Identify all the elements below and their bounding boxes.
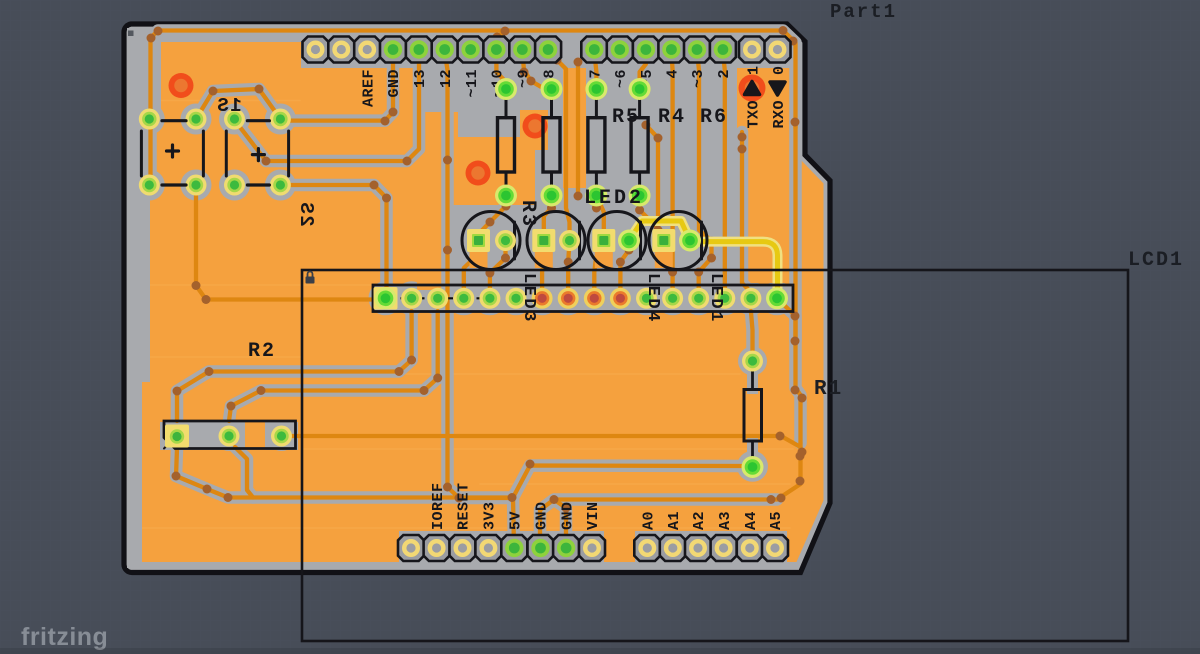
trace pin10 to top edge [496, 31, 505, 49]
svg-text:AREF: AREF [360, 69, 377, 107]
svg-text:A1: A1 [666, 511, 683, 530]
svg-text:4: 4 [665, 69, 682, 79]
trace R5 to LED2 sq [544, 196, 552, 241]
trace R2.1 upper loop to LCD pad2 [177, 311, 412, 421]
trace LCD p16 to edge [777, 298, 796, 341]
trace LED1 sq to LCD p4 [464, 247, 479, 298]
svg-text:LCD1: LCD1 [1128, 249, 1184, 272]
svg-text:2: 2 [716, 69, 733, 79]
trace S1 top pair [196, 89, 280, 119]
svg-text:TXO: TXO [745, 100, 762, 129]
svg-text:LED2: LED2 [584, 187, 644, 210]
svg-text:A4: A4 [743, 511, 760, 530]
svg-text:S: S [217, 95, 228, 117]
trace R6 diag feed [646, 125, 658, 230]
svg-text:RESET: RESET [456, 482, 473, 530]
svg-text:~3: ~3 [690, 69, 707, 88]
trace GND run [540, 500, 777, 549]
svg-text:GND: GND [534, 501, 551, 530]
svg-text:LED1: LED1 [706, 273, 725, 324]
LED 4 footprint [649, 212, 707, 270]
svg-text:R1: R1 [814, 378, 843, 401]
trace edge top [151, 31, 796, 187]
trace R2.1 lower loop to 5V [176, 449, 512, 498]
R2 pad halos [162, 422, 192, 452]
svg-text:1: 1 [230, 95, 241, 117]
bottom vignette [0, 648, 1200, 654]
svg-text:8: 8 [541, 69, 558, 79]
trace R2.2 loop to LCD pad3 [229, 311, 438, 421]
yellow wire LED4 to LCD pad16 [690, 242, 778, 298]
trace 5V to R1 [513, 466, 753, 549]
trace S2 pad1 to pin13 [235, 52, 420, 161]
label S2 (mirrored, vertical) [295, 202, 317, 226]
svg-text:~11: ~11 [464, 69, 481, 98]
LED 3 footprint [588, 212, 646, 270]
LED square pad copper stubs [470, 232, 488, 268]
resistor pad halos [493, 76, 520, 103]
R2 pads [165, 425, 189, 448]
via dots [147, 34, 156, 43]
trace LCD p15 to R1 [751, 311, 753, 361]
trace LED3 round to LCD p10 [620, 241, 629, 299]
svg-text:RXO: RXO [771, 100, 788, 129]
trace GND2 stub [554, 500, 566, 549]
svg-text:R6: R6 [700, 106, 728, 129]
svg-text:R4: R4 [658, 106, 686, 129]
resistor R1 [751, 361, 754, 390]
trace island column 2 [576, 62, 580, 196]
trace S1.p4 to LCD pad1 [196, 191, 378, 300]
copper keepout regions (silver) [127, 28, 142, 568]
bottom header right (A0-A5) [634, 535, 660, 561]
svg-text:3V3: 3V3 [482, 501, 499, 530]
svg-text:12: 12 [438, 69, 455, 88]
svg-text:A0: A0 [641, 511, 658, 530]
trace pin3 to LCD p13 [697, 52, 712, 298]
svg-text:~9: ~9 [516, 69, 533, 88]
svg-text:fritzing: fritzing [21, 623, 108, 651]
svg-text:S: S [295, 202, 317, 213]
trace LED1 round to LCD p5 [490, 241, 506, 298]
orange islands [417, 112, 443, 290]
trace R6 to LED4 sq [640, 196, 664, 241]
trace pin4 to LCD p12 [671, 52, 672, 298]
svg-text:LED4: LED4 [643, 273, 662, 324]
trace pin8 island column [548, 52, 569, 241]
via V3 (between resistors) [523, 114, 548, 139]
resistor R2 outline [164, 421, 296, 449]
bottom header left (power) [398, 535, 424, 561]
trace pin12 down [445, 52, 510, 498]
yellow wire LED3-LED4 [629, 221, 690, 241]
trace R4 to LED3 sq [596, 196, 603, 241]
resistor R3 body [505, 89, 508, 118]
pushbutton S1 S2 pads and silk [139, 109, 160, 130]
R1 pad halos [738, 347, 767, 376]
trace right edge vertical [796, 122, 801, 443]
board outline (Arduino shield shape, silver rim + black edge) [124, 24, 830, 573]
trace R2.3 to right edge [282, 436, 801, 447]
resistor R5 body [550, 89, 553, 118]
trace right edge down segment [777, 443, 801, 500]
trace R3 to LED1 sq [479, 196, 507, 241]
svg-text:7: 7 [588, 69, 605, 79]
svg-text:A5: A5 [768, 511, 785, 530]
trace R2.2 stub right [235, 447, 253, 498]
svg-text:1: 1 [745, 66, 762, 76]
copper fill seams [302, 373, 740, 375]
trace pin2 to LCD p14 [723, 52, 725, 298]
via V1 (top-left) [169, 73, 194, 98]
LCD header silk rect [373, 285, 793, 312]
label TX0 1 with arrow [739, 75, 766, 102]
svg-text:0: 0 [771, 66, 788, 76]
top header right (7-0) [581, 37, 607, 63]
LCD header pad halos [369, 281, 403, 315]
top header left (SCL,SDA,AREF,GND,13-8) [303, 37, 329, 63]
trace S2 pad4 to LCD pad1 [280, 185, 386, 298]
svg-text:2: 2 [295, 215, 317, 226]
svg-text:GND: GND [386, 69, 403, 98]
trace pin7 to R4 top [594, 52, 596, 89]
trace S2 top to GND pin [280, 52, 393, 121]
trace pin5 to R6 top [640, 52, 646, 89]
svg-text:A2: A2 [691, 511, 708, 530]
resistor R6 body [638, 89, 641, 118]
svg-text:R2: R2 [248, 340, 276, 363]
board copper area (orange) [131, 31, 824, 563]
resistor R4 body [595, 89, 598, 118]
svg-text:R3: R3 [516, 200, 539, 228]
LED 1 footprint [462, 212, 520, 270]
svg-text:Part1: Part1 [830, 1, 897, 23]
trace pin9 to R5 top [522, 52, 551, 89]
LCD1 lock icon [306, 277, 315, 284]
svg-text:IOREF: IOREF [430, 482, 447, 530]
svg-text:~6: ~6 [613, 69, 630, 88]
svg-text:R5: R5 [612, 106, 640, 129]
LCD header pads [374, 287, 398, 310]
trace LED2 sq down [542, 247, 544, 298]
svg-text:LED3: LED3 [519, 273, 538, 324]
fiducial square top-left [128, 31, 134, 37]
pushbutton pad halos [134, 104, 165, 135]
svg-text:VIN: VIN [585, 501, 602, 530]
LED 2 footprint [527, 212, 585, 270]
svg-text:GND: GND [559, 501, 576, 530]
svg-text:A3: A3 [717, 511, 734, 530]
via V2 (mid-left) [466, 161, 491, 186]
svg-text:13: 13 [412, 69, 429, 88]
svg-text:5V: 5V [508, 511, 525, 530]
ratsnest dashed line [391, 297, 489, 299]
trace LED3 sq to LCD p9 [594, 247, 604, 298]
trace pin10 to R3 top [496, 52, 506, 89]
trace LED2 round to LCD p8 [568, 241, 569, 298]
trace island TX to LCD p15 [742, 132, 751, 298]
trace clearance halos [151, 31, 796, 187]
LCD1 outline rectangle [302, 270, 1128, 641]
